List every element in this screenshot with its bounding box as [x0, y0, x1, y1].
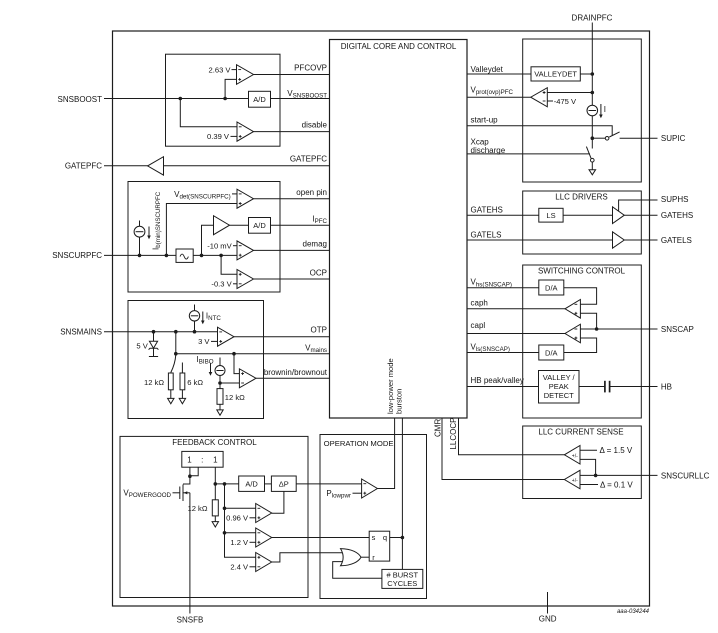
- svg-text:start-up: start-up: [471, 115, 499, 124]
- svg-text:capl: capl: [471, 321, 486, 330]
- comparator delta 1.5V: [564, 446, 580, 465]
- wire SNSCAP: [580, 328, 657, 330]
- svg-text:caph: caph: [471, 299, 488, 308]
- svg-text:s: s: [372, 533, 376, 542]
- svg-text:disable: disable: [302, 120, 328, 129]
- svg-text:GATEPFC: GATEPFC: [290, 155, 327, 164]
- ground arrow Xcap: [589, 170, 596, 175]
- current source Ib(min)SNSCURPFC: [139, 221, 141, 227]
- wire FB level bus: [215, 483, 238, 485]
- resistor 12 kOhm BIBO: [217, 389, 223, 405]
- wire comparator rail: [225, 484, 256, 557]
- OR gate: [341, 549, 362, 566]
- zener diode 5V: [153, 332, 155, 342]
- wire 1.5 comp lower input: [580, 459, 596, 475]
- svg-text:PEAK: PEAK: [549, 382, 569, 391]
- svg-text:I: I: [604, 105, 606, 114]
- svg-text:SNSCURPFC: SNSCURPFC: [52, 251, 102, 260]
- D/A converter hs: [539, 280, 564, 295]
- buffer GATEPFC driver: [148, 157, 164, 175]
- wire GATEHS in: [467, 214, 613, 216]
- svg-text:+/-: +/-: [572, 478, 578, 484]
- wire HB out: [609, 386, 657, 388]
- svg-text:GATELS: GATELS: [661, 236, 692, 245]
- block VALLEYDET: [531, 67, 580, 81]
- junction dots block1: [179, 97, 183, 101]
- block LLC DRIVERS box: [523, 191, 642, 254]
- ground arrow 12k: [168, 398, 174, 403]
- comparator caph: [565, 300, 580, 319]
- arrow current direction: [148, 227, 150, 238]
- svg-text:LLC DRIVERS: LLC DRIVERS: [555, 193, 607, 202]
- wire SUPIC: [620, 137, 658, 139]
- wire SNSMAINS bus: [104, 331, 218, 333]
- comparator brownin/brownout: [239, 369, 256, 388]
- switch SUPIC: [591, 136, 595, 140]
- wire rail to 0.96 comp: [225, 507, 256, 509]
- wire SNSCURLLC: [580, 474, 658, 476]
- svg-text::: :: [201, 455, 203, 464]
- comparator Plowpwr: [362, 479, 378, 498]
- svg-text:0.39 V: 0.39 V: [207, 132, 230, 141]
- comparator OTP 3V: [218, 327, 235, 346]
- wire Vhs(SNSCAP): [467, 287, 539, 289]
- svg-text:FEEDBACK CONTROL: FEEDBACK CONTROL: [172, 438, 257, 447]
- comparator capl: [565, 324, 580, 343]
- value delta 0.1 V: [580, 484, 598, 486]
- svg-text:A/D: A/D: [245, 480, 258, 489]
- svg-text:SUPHS: SUPHS: [661, 195, 689, 204]
- block # BURST CYCLES: [382, 569, 423, 588]
- wire D/A to caph comp: [564, 288, 597, 305]
- svg-text:SUPIC: SUPIC: [661, 134, 686, 143]
- svg-text:GATELS: GATELS: [471, 231, 502, 240]
- wire branch to OCP comp: [221, 255, 237, 274]
- svg-text:VALLEYDET: VALLEYDET: [534, 70, 577, 79]
- current source I: [587, 105, 598, 116]
- switch Xcap: [586, 147, 591, 159]
- block VALLEY/PEAK DETECT: [539, 371, 580, 404]
- wire feedback from bus to open-pin comp: [166, 204, 237, 256]
- block PFC OVP box: [166, 54, 281, 146]
- svg-text:Δ = 0.1 V: Δ = 0.1 V: [600, 480, 633, 489]
- value delta 1.5 V: [580, 449, 597, 451]
- wire rail to 1.2 comp: [225, 532, 256, 534]
- wire q output: [390, 537, 403, 539]
- svg-text:6 kΩ: 6 kΩ: [187, 378, 203, 387]
- svg-text:SNSCURLLC: SNSCURLLC: [661, 471, 710, 480]
- svg-text:HB peak/valley: HB peak/valley: [471, 376, 524, 385]
- wire tap to 0.39V comp: [180, 99, 237, 127]
- wire gate: [173, 492, 180, 494]
- wire OTP output: [234, 336, 330, 338]
- comparator open pin: [237, 189, 254, 208]
- svg-text:q: q: [383, 533, 387, 542]
- svg-text:OCP: OCP: [310, 269, 327, 278]
- comparator 0.39V: [237, 122, 254, 141]
- svg-text:-475 V: -475 V: [554, 97, 577, 106]
- wire amp to A/D: [230, 224, 330, 226]
- wire LLCOCP: [459, 418, 565, 455]
- svg-text:1: 1: [187, 455, 192, 464]
- block delta-P: [271, 476, 296, 491]
- wire A/D to dP: [265, 483, 272, 485]
- pin GND: [547, 592, 549, 614]
- wire Vprot output: [467, 96, 531, 98]
- block LS: [539, 208, 563, 222]
- wire burston vertical: [401, 418, 403, 569]
- wire SNSFB line: [189, 493, 191, 614]
- wire Vmains line: [176, 353, 330, 355]
- amplifier IPFC: [214, 216, 230, 235]
- wire caph output: [467, 308, 565, 310]
- svg-text:SNSMAINS: SNSMAINS: [60, 328, 102, 337]
- wire comparator disable output: [254, 131, 330, 133]
- filter box: [176, 249, 193, 262]
- comparator 1.2V: [256, 528, 272, 547]
- wire comparator PFCOVP output: [254, 74, 330, 76]
- svg-text:burston: burston: [395, 389, 404, 414]
- wire transformer right leg: [214, 467, 216, 500]
- wire 2.63V to comparator: [232, 69, 237, 71]
- IC outer boundary: [113, 31, 650, 606]
- wire 1.2V comp output to latch s: [272, 537, 370, 539]
- block OPERATION MODE box: [320, 435, 427, 599]
- ground arrow 6k: [179, 398, 185, 403]
- svg-text:LS: LS: [546, 211, 555, 220]
- wire demag output: [254, 249, 330, 251]
- arrow I: [600, 104, 602, 117]
- arrow INTC: [202, 312, 204, 323]
- value -475 V: [547, 100, 553, 102]
- wire OR to r: [361, 556, 369, 558]
- comparator 2.4V: [256, 553, 272, 572]
- junction dot transformer/drain: [188, 474, 192, 478]
- svg-text:-10 mV: -10 mV: [207, 242, 232, 251]
- wire detect to cap: [579, 386, 605, 388]
- svg-text:brownin/brownout: brownin/brownout: [264, 368, 328, 377]
- svg-text:A/D: A/D: [253, 95, 266, 104]
- ground arrow BIBO: [217, 410, 223, 415]
- wire -0.3V to comparator: [233, 283, 237, 285]
- junction dots block3: [152, 330, 156, 334]
- svg-text:+/-: +/-: [572, 453, 578, 459]
- comparator 0.96V: [256, 504, 272, 523]
- wire amp branch: [202, 225, 214, 255]
- svg-text:A/D: A/D: [253, 221, 266, 230]
- comparator demag: [237, 241, 254, 260]
- wire SUPHS: [619, 200, 658, 211]
- svg-text:Δ = 1.5 V: Δ = 1.5 V: [600, 446, 633, 455]
- comparator -475V: [531, 88, 548, 107]
- wire -10mV to comparator: [233, 245, 237, 247]
- wire brownin output: [256, 377, 330, 379]
- ground arrow FB: [212, 522, 218, 527]
- resistor 6 kOhm: [181, 363, 183, 374]
- wire dP bottom to 0.96 comp output: [272, 491, 284, 513]
- svg-text:2.63 V: 2.63 V: [209, 65, 232, 74]
- svg-text:SNSFB: SNSFB: [177, 615, 204, 624]
- block DIGITAL CORE AND CONTROL: [330, 40, 468, 419]
- svg-text:HB: HB: [661, 382, 672, 391]
- block PFC current sense box: [128, 182, 280, 293]
- svg-text:-0.3 V: -0.3 V: [211, 280, 232, 289]
- svg-text:DETECT: DETECT: [544, 391, 574, 400]
- svg-text:D/A: D/A: [545, 349, 558, 358]
- buffer GATEHS: [613, 207, 625, 224]
- junction dot 12k tap: [214, 482, 218, 486]
- wire brownin comp top input branch: [234, 354, 239, 374]
- wire HB peak/valley: [467, 386, 539, 388]
- wire SNSBOOST bus: [104, 98, 330, 100]
- capacitor HB: [604, 381, 606, 393]
- svg-text:demag: demag: [303, 240, 327, 249]
- latch SR: [369, 531, 390, 561]
- wire GATEHS out: [624, 214, 657, 216]
- svg-text:5 V: 5 V: [136, 342, 148, 351]
- svg-text:SNSBOOST: SNSBOOST: [58, 95, 103, 104]
- svg-text:2.4 V: 2.4 V: [230, 563, 249, 572]
- svg-text:12 kΩ: 12 kΩ: [144, 378, 164, 387]
- wire SNSCURPFC bus: [104, 254, 237, 256]
- wire DRAINPFC vertical: [591, 23, 593, 106]
- D/A converter ls: [539, 345, 564, 360]
- svg-text:12 kΩ: 12 kΩ: [225, 393, 245, 402]
- wire burst loop: [333, 562, 382, 579]
- svg-text:1: 1: [213, 455, 218, 464]
- wire Plowpwr comp output / low-power mode: [377, 418, 394, 489]
- wire Vprot comp top input: [547, 92, 592, 94]
- wire bus tap down: [175, 332, 177, 355]
- svg-text:SWITCHING CONTROL: SWITCHING CONTROL: [538, 267, 626, 276]
- wire IBIBO to comp bottom input: [220, 382, 239, 384]
- buffer GATELS: [613, 232, 625, 248]
- wire GATELS: [467, 239, 613, 241]
- comparator 2.63V: [237, 65, 254, 85]
- junction dots block2: [138, 254, 142, 258]
- svg-text:OPERATION MODE: OPERATION MODE: [324, 439, 394, 448]
- wire 3V to comparator: [211, 340, 218, 342]
- svg-text:GATEPFC: GATEPFC: [65, 162, 102, 171]
- block start-up/valleydet box: [523, 39, 642, 182]
- svg-text:LLC CURRENT SENSE: LLC CURRENT SENSE: [538, 427, 623, 436]
- svg-text:OTP: OTP: [311, 326, 327, 335]
- svg-text:D/A: D/A: [545, 284, 558, 293]
- wire Vdet to comparator: [232, 193, 237, 195]
- A/D converter FB: [239, 476, 265, 491]
- svg-text:PFCOVP: PFCOVP: [294, 63, 327, 72]
- switch blade to 12k: [171, 355, 176, 373]
- resistor 12 kOhm: [168, 373, 173, 390]
- svg-text:1.2 V: 1.2 V: [230, 538, 249, 547]
- wire CMR: [442, 418, 564, 480]
- svg-text:open pin: open pin: [296, 188, 327, 197]
- arrow IBIBO: [210, 364, 212, 375]
- svg-text:0.96 V: 0.96 V: [226, 514, 249, 523]
- svg-text:CMR: CMR: [433, 419, 442, 437]
- current source INTC: [194, 305, 196, 311]
- block LLC CURRENT SENSE box: [523, 426, 642, 499]
- wire start-up: [467, 126, 612, 136]
- A/D converter PFC: [249, 91, 271, 107]
- svg-text:DRAINPFC: DRAINPFC: [572, 14, 613, 23]
- svg-text:GND: GND: [539, 615, 557, 624]
- wire Vls(SNSCAP): [467, 352, 539, 354]
- resistor 12 kOhm FB: [212, 500, 218, 516]
- wire dP to Plowpwr comp: [296, 483, 361, 485]
- comparator OCP: [237, 270, 254, 289]
- svg-text:CYCLES: CYCLES: [387, 579, 417, 588]
- block FEEDBACK CONTROL box: [120, 436, 308, 597]
- wire Xcap discharge: [467, 153, 590, 155]
- wire transformer primary stubs: [190, 467, 198, 476]
- svg-text:DIGITAL CORE AND CONTROL: DIGITAL CORE AND CONTROL: [341, 42, 457, 51]
- svg-text:GATEHS: GATEHS: [471, 206, 503, 215]
- svg-text:aaa-034244: aaa-034244: [617, 609, 650, 615]
- A/D converter IPFC: [249, 218, 271, 234]
- svg-text:LLCOCP: LLCOCP: [449, 417, 458, 449]
- wire GATEPFC: [104, 165, 330, 167]
- wire caph comp plus to SNSCAP: [580, 313, 596, 329]
- wire Valleydet: [467, 73, 592, 75]
- transistor Q1 MOSFET: [179, 487, 181, 500]
- wire capl comp plus to D/A ls: [564, 338, 597, 353]
- wire capl output: [467, 333, 565, 335]
- comparator delta 0.1V: [564, 470, 580, 489]
- wire GATELS out: [624, 239, 657, 241]
- wire 2.4V comp output to OR gate: [272, 553, 343, 562]
- block SNSMAINS box: [128, 301, 264, 419]
- svg-text:SNSCAP: SNSCAP: [661, 325, 694, 334]
- wire OCP output: [254, 278, 330, 280]
- wire open pin output: [254, 198, 330, 200]
- svg-text:VALLEY /: VALLEY /: [543, 373, 576, 382]
- block SWITCHING CONTROL box: [523, 265, 642, 418]
- wire 0.39V to comparator: [231, 135, 238, 137]
- wire feedback to 2.63V comp plus input: [225, 79, 236, 98]
- svg-text:GATEHS: GATEHS: [661, 211, 693, 220]
- svg-text:ΔP: ΔP: [279, 480, 289, 489]
- svg-text:12 kΩ: 12 kΩ: [187, 504, 207, 513]
- svg-text:Valleydet: Valleydet: [471, 65, 504, 74]
- svg-text:3 V: 3 V: [198, 337, 210, 346]
- transformer 1:1: [182, 451, 223, 467]
